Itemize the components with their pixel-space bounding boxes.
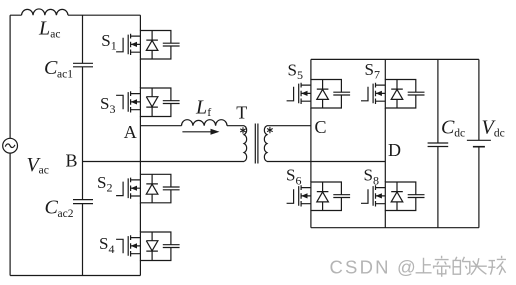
svg-text:ac: ac — [50, 28, 60, 40]
polarity dot primary (star) — [240, 127, 246, 133]
svg-text:5: 5 — [297, 68, 303, 82]
svg-text:T: T — [236, 103, 247, 123]
transistor S5 (MOSFET with body diode and snubber cap) — [287, 80, 351, 109]
transistor S4 (MOSFET with body diode and snubber cap) — [116, 232, 180, 261]
wire: left leg rail S5-C-S6 — [310, 108, 312, 182]
transformer T primary winding — [244, 126, 247, 162]
svg-text:L: L — [38, 17, 50, 39]
wire: left bridge rail S2-S4 — [139, 203, 141, 232]
capacitor Cac2 — [73, 200, 93, 204]
battery Vdc — [467, 139, 491, 141]
svg-text:S: S — [288, 60, 297, 79]
transistor S2 (MOSFET with body diode and snubber cap) — [116, 174, 180, 203]
polarity dot secondary (star) — [267, 127, 273, 133]
wire: Vdc branch lower — [478, 147, 480, 228]
svg-text:S: S — [365, 60, 374, 79]
wire: transformer secondary bottom to node D — [267, 161, 385, 163]
inductor Lac — [22, 9, 69, 15]
capacitor Cdc — [428, 143, 449, 147]
svg-text:S: S — [99, 234, 108, 253]
svg-text:C: C — [441, 117, 455, 139]
capacitor Cac1 — [73, 63, 93, 67]
svg-text:dc: dc — [454, 128, 465, 140]
svg-text:@: @ — [397, 257, 416, 278]
svg-text:ac: ac — [39, 165, 49, 177]
wire: right leg rail S7-D-S8 — [384, 108, 386, 182]
svg-text:4: 4 — [109, 242, 115, 256]
wire: left bridge rail S3-A-S2 — [139, 117, 141, 175]
svg-text:CSDN: CSDN — [330, 257, 391, 278]
transistor S3 (MOSFET with body diode and snubber cap) — [116, 88, 180, 117]
wire: right bridge top rail — [311, 58, 479, 60]
wire: right leg rail bottom — [384, 211, 386, 228]
svg-text:B: B — [66, 151, 78, 171]
transformer T secondary winding — [264, 126, 267, 162]
wire: capacitor branch middle (node B vertical) — [82, 67, 84, 200]
inductor Lf — [182, 120, 228, 126]
svg-text:C: C — [45, 197, 59, 219]
transistor S7 (MOSFET with body diode and snubber cap) — [361, 80, 425, 109]
wire: right bridge bottom rail — [311, 227, 479, 229]
wire: capacitor branch lower — [82, 204, 84, 276]
wire: Vdc branch upper — [478, 59, 480, 140]
wire: left rail upper (source to top corner) — [9, 15, 11, 138]
wire: capacitor branch upper — [82, 15, 84, 63]
wire: node B to transformer primary bottom — [83, 161, 245, 163]
transistor S6 (MOSFET with body diode and snubber cap) — [287, 182, 351, 211]
svg-text:1: 1 — [111, 39, 117, 53]
svg-text:8: 8 — [373, 173, 379, 187]
svg-text:7: 7 — [374, 68, 380, 82]
source Vac (AC source circle) — [3, 138, 18, 153]
transistor S8 (MOSFET with body diode and snubber cap) — [361, 182, 425, 211]
wire: left bridge rail bottom (S4 to bottom rail) — [139, 261, 141, 276]
current arrow (iLf direction) — [182, 129, 219, 135]
svg-text:6: 6 — [296, 173, 302, 187]
wire: top AC rail from source to bridge — [10, 14, 140, 16]
svg-text:C: C — [44, 57, 58, 79]
wire: filter inductor to transformer primary top — [227, 125, 244, 127]
svg-text:A: A — [124, 122, 137, 142]
svg-text:S: S — [97, 173, 106, 192]
watermark CSDN @shangdidenvhai — [330, 257, 416, 278]
svg-text:S: S — [101, 31, 110, 50]
wire: left leg rail top (to S5) — [310, 59, 312, 79]
svg-text:S: S — [364, 166, 373, 185]
wire: Cdc branch lower — [437, 147, 439, 228]
wire: bottom AC rail — [10, 275, 140, 277]
wire: node A to filter inductor — [140, 125, 181, 127]
svg-text:dc: dc — [494, 128, 505, 140]
svg-text:2: 2 — [107, 181, 113, 195]
svg-text:C: C — [315, 117, 327, 137]
transformer T core — [255, 124, 258, 164]
wire: transformer secondary top to node C — [267, 125, 311, 127]
svg-text:S: S — [100, 94, 109, 113]
svg-text:f: f — [207, 105, 211, 119]
svg-text:D: D — [388, 140, 401, 160]
svg-text:S: S — [286, 166, 295, 185]
svg-text:ac1: ac1 — [57, 68, 73, 80]
svg-text:3: 3 — [110, 102, 116, 116]
wire: Cdc branch upper — [437, 59, 439, 143]
svg-text:ac2: ac2 — [58, 208, 74, 220]
wire: left leg rail bottom — [310, 211, 312, 228]
wire: left bridge rail top (top rail to S1) — [139, 15, 141, 30]
wire: right leg rail top (to S7) — [384, 59, 386, 79]
wire: left rail lower (source to bottom corner) — [9, 153, 11, 276]
transistor S1 (MOSFET with body diode and snubber cap) — [116, 31, 180, 60]
svg-text:L: L — [195, 96, 207, 118]
wire: left bridge rail S1-S3 — [139, 59, 141, 88]
